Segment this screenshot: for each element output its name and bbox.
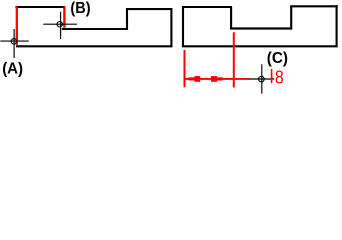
left shape notch bottom edge [62,28,128,30]
left shape top edge [15,6,65,8]
crosshair A snap circle [11,39,16,44]
crosshair A vertical arm [13,29,15,58]
dimension arrowhead left (red, points left) [188,76,200,82]
dynamic input text cursor (red bar) [271,69,273,83]
left shape bottom edge [16,45,172,47]
left shape tab top edge [126,8,172,10]
left shape right edge [170,9,172,48]
crosshair B vertical arm [60,12,62,39]
right shape tab top edge [290,5,337,7]
crosshair B snap circle [57,22,62,27]
right shape left edge [182,6,184,47]
right shape notch right edge [290,6,292,30]
right shape notch left edge [230,7,232,29]
svg-text:(C): (C) [267,50,288,67]
left shape step vertical [126,9,128,30]
svg-text:(A): (A) [2,61,23,78]
left shape left edge (red, segment A) [16,6,18,45]
dimension line (red) [185,78,250,80]
right shape top edge [182,6,232,8]
right shape bottom edge [182,45,338,47]
svg-text:8: 8 [275,67,284,88]
crosshair C snap circle [259,76,265,82]
crosshair C vertical arm [261,64,263,93]
right shape notch bottom edge [230,27,292,29]
crosshair B horizontal arm [43,23,77,25]
crosshair C horizontal arm [249,78,274,80]
dimension arrowhead right (red, points right) [211,76,223,82]
svg-text:(B): (B) [70,0,90,17]
dimension extension line 1 (red) [184,50,186,87]
dimension extension line 2 (red) [233,32,235,87]
right shape right edge [336,5,338,47]
left shape notch left edge (red, segment B) [63,7,65,28]
crosshair A horizontal arm [0,40,29,42]
